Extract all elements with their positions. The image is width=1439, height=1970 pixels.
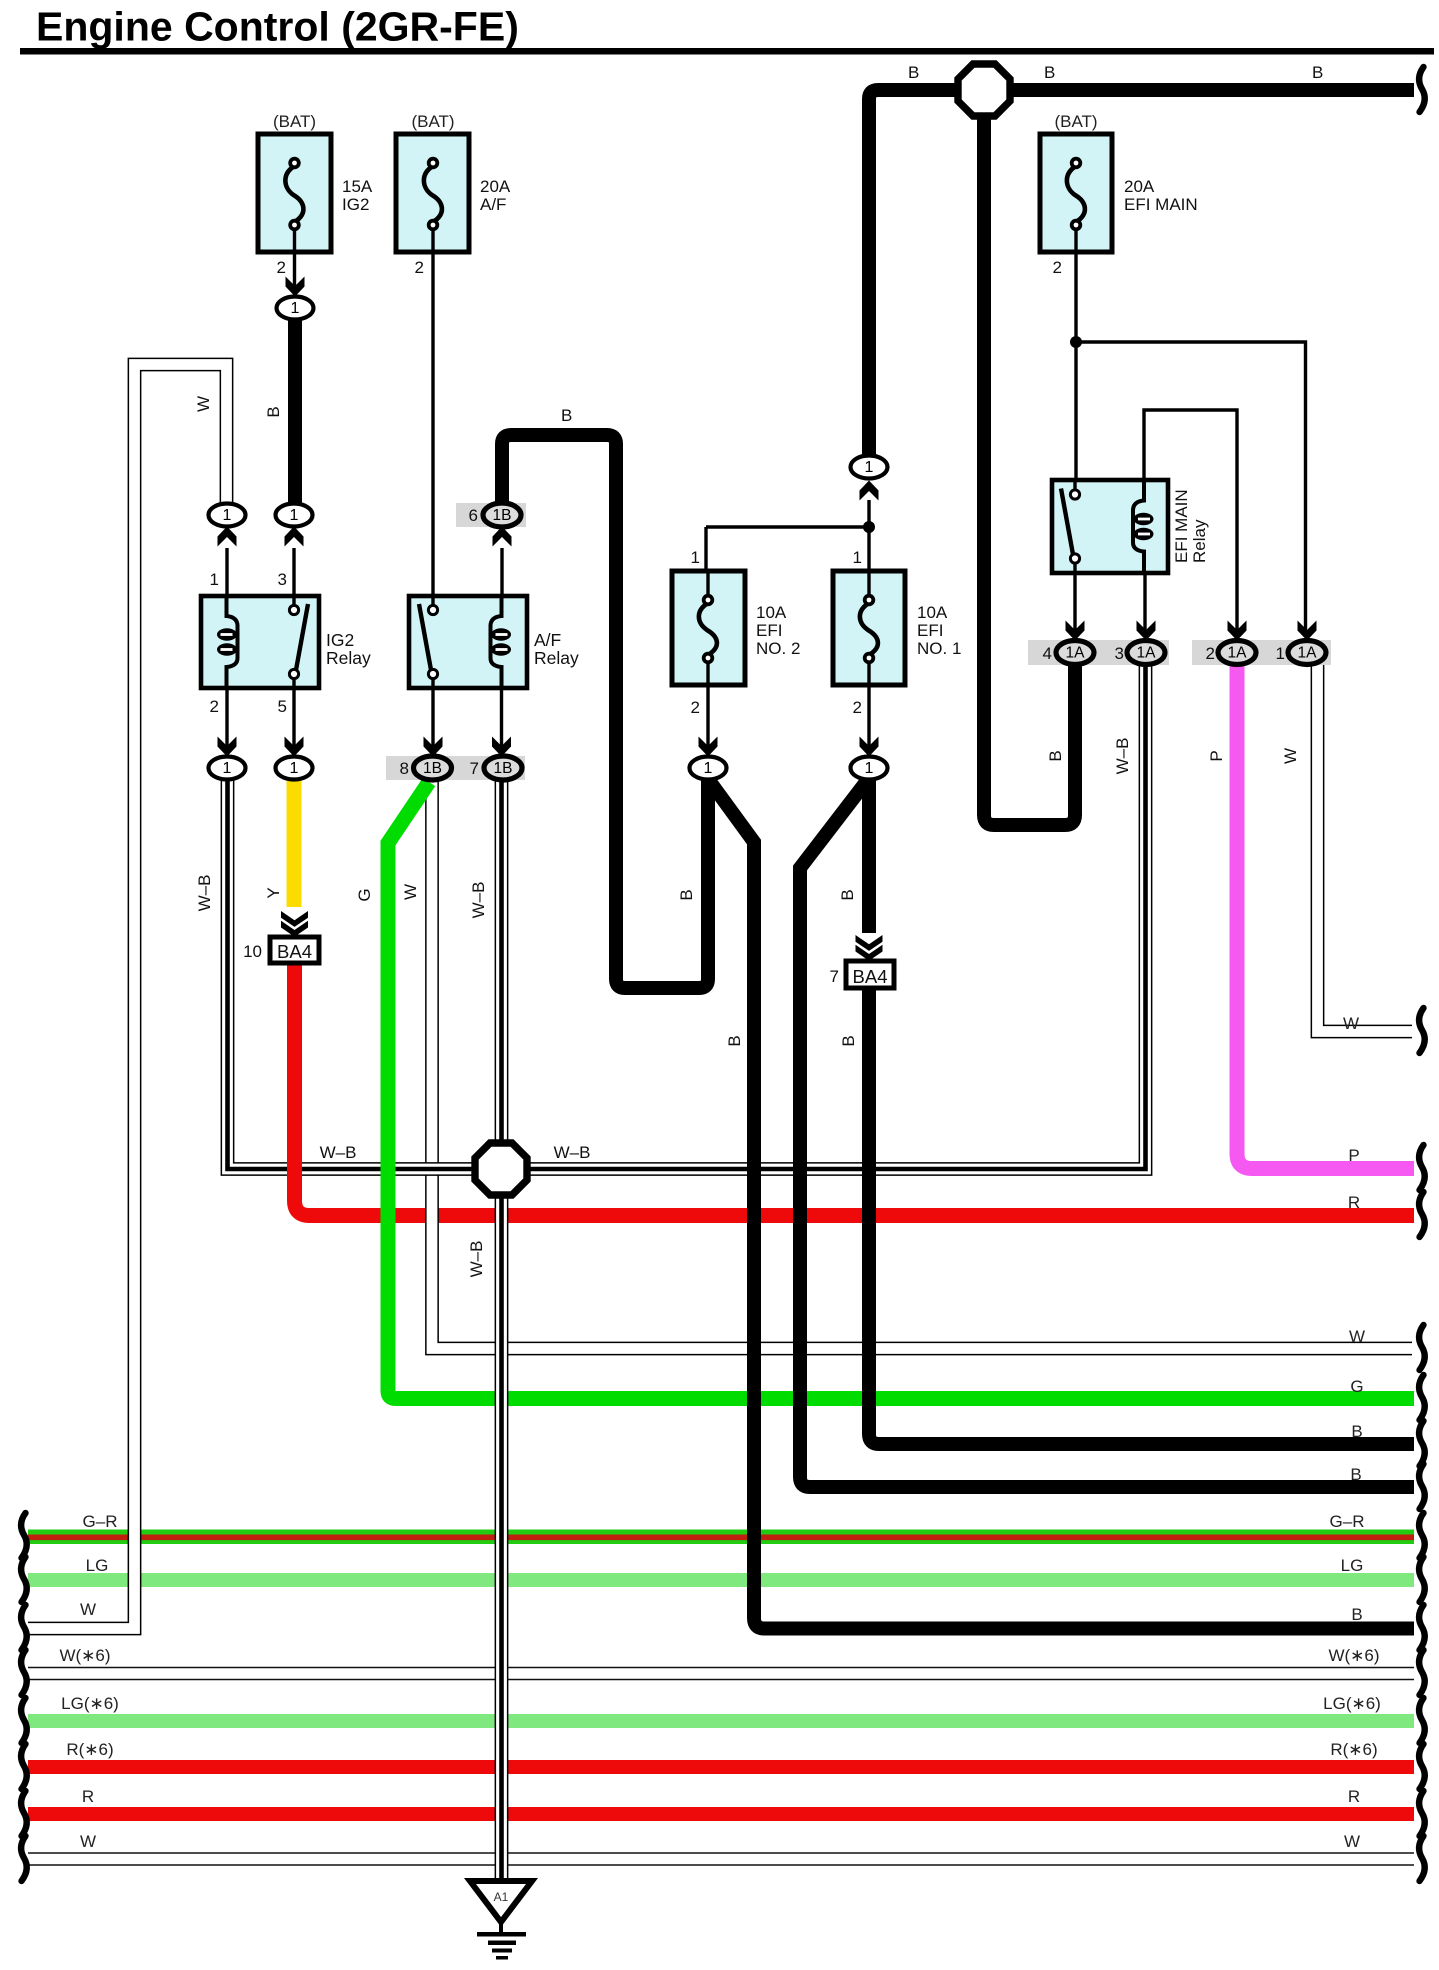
connector 3(1A) xyxy=(1127,641,1165,665)
svg-text:W: W xyxy=(1343,1014,1359,1033)
relay EFI MAIN switch xyxy=(1061,481,1080,573)
svg-text:W: W xyxy=(401,884,420,900)
arrow into connector 1 below IG2 relay pin2 xyxy=(218,737,237,757)
svg-text:10A: 10A xyxy=(756,603,787,622)
svg-text:R(∗6): R(∗6) xyxy=(1330,1740,1377,1759)
svg-text:B: B xyxy=(725,1035,744,1046)
svg-text:IG2: IG2 xyxy=(326,630,354,650)
svg-text:B: B xyxy=(908,63,919,82)
wire LG(*6) bus xyxy=(28,1714,1414,1728)
connector 1 above IG2 relay pin1 xyxy=(209,504,246,527)
wire B vertical to top bus and bus to right edge xyxy=(869,90,1414,458)
node octagon junction on top B bus xyxy=(958,64,1010,116)
arrow up into connector 6(1B) xyxy=(493,527,512,547)
wire node down to fuse EFI NO.1 pin1 xyxy=(867,527,870,602)
svg-text:1: 1 xyxy=(1276,644,1285,663)
wire connector 1 to node xyxy=(867,500,870,527)
svg-text:B: B xyxy=(1350,1465,1361,1484)
wire EFI MAIN relay coil to 3(1A) xyxy=(1143,573,1146,630)
wire B from 15A IG2 fuse to connector 1 xyxy=(288,318,302,507)
title underline xyxy=(20,48,1434,55)
svg-text:LG(∗6): LG(∗6) xyxy=(61,1694,119,1713)
svg-text:R: R xyxy=(1348,1787,1360,1806)
svg-text:G: G xyxy=(355,888,374,901)
relay IG2 coil xyxy=(217,596,238,688)
svg-text:(BAT): (BAT) xyxy=(411,112,454,131)
connector 1(1A) xyxy=(1288,641,1326,665)
svg-text:W–B: W–B xyxy=(195,875,214,912)
wire fuse A/F pin2 down to A/F relay switch xyxy=(431,252,434,606)
connector band 6(1B) xyxy=(456,503,526,527)
wire break right end of W(*6) xyxy=(1419,1650,1425,1695)
svg-text:20A: 20A xyxy=(480,177,511,196)
wire break left end of R(*6) xyxy=(21,1744,27,1789)
svg-text:NO. 2: NO. 2 xyxy=(756,639,800,658)
svg-text:W(∗6): W(∗6) xyxy=(1328,1646,1379,1665)
wire break left end of W left xyxy=(21,1605,27,1650)
arrow into connector 3(1A) xyxy=(1137,621,1156,641)
svg-text:B: B xyxy=(1351,1605,1362,1624)
wire B from BA4 no.7 down then right to edge xyxy=(869,986,1414,1444)
wire connector 1 to IG2 relay switch pin3 xyxy=(292,548,295,606)
svg-text:Relay: Relay xyxy=(326,648,371,668)
svg-text:B: B xyxy=(1044,63,1055,82)
wire node to 1(1A) xyxy=(1076,342,1306,630)
wire break left end of R bottom xyxy=(21,1791,27,1836)
svg-text:A/F: A/F xyxy=(534,630,561,650)
connector 1 below IG2 relay pin2 xyxy=(209,757,246,780)
wire break right end of LG xyxy=(1419,1557,1425,1602)
wire W-B ground drop to A1 xyxy=(495,779,509,1878)
connector 1 above IG2 relay pin3 xyxy=(276,504,313,527)
fuse 10A EFI NO.2 xyxy=(672,571,745,685)
wire IG2 relay pin2 to arrow xyxy=(225,688,228,746)
svg-text:B: B xyxy=(561,406,572,425)
wire B from EFI NO.2 connector diagonal down then right to edge xyxy=(708,779,1414,1629)
svg-text:Relay: Relay xyxy=(1190,519,1209,563)
svg-text:2: 2 xyxy=(1206,644,1215,663)
svg-text:B: B xyxy=(1046,750,1065,761)
wire break right end of B lower xyxy=(1419,1605,1425,1650)
svg-text:R: R xyxy=(1348,1193,1360,1212)
wire G from 8(1B) down then right to edge xyxy=(388,782,1414,1399)
wire G-R bus (green base) left-right xyxy=(28,1530,1414,1545)
svg-text:1: 1 xyxy=(223,507,232,524)
title: Engine Control (2GR-FE) xyxy=(36,4,519,50)
svg-text:B: B xyxy=(839,1035,858,1046)
svg-text:NO. 1: NO. 1 xyxy=(917,639,961,658)
arrow up into connector 1 above EFI fuses xyxy=(860,481,879,501)
arrow into connector 8(1B) xyxy=(424,737,443,757)
svg-text:3: 3 xyxy=(278,570,287,589)
svg-text:LG: LG xyxy=(86,1556,109,1575)
fuse 20A A/F xyxy=(396,134,469,252)
wire R from BA4 down then right xyxy=(295,960,353,1216)
wire R horizontal from BA4 (right segment) xyxy=(350,1208,1414,1223)
svg-text:4: 4 xyxy=(1043,644,1052,663)
svg-text:W: W xyxy=(194,396,213,412)
relay IG2 Relay box xyxy=(201,596,319,688)
svg-text:G–R: G–R xyxy=(83,1512,118,1531)
wire break right end of W from 1(1A) xyxy=(1419,1008,1425,1053)
arrow into connector 2(1A) xyxy=(1228,621,1247,641)
svg-text:7: 7 xyxy=(830,967,839,986)
connector 1 below fuse EFI NO.1 xyxy=(851,757,888,780)
svg-text:1B: 1B xyxy=(493,507,512,524)
svg-text:W–B: W–B xyxy=(467,1241,486,1278)
splice BA4 no.7 xyxy=(846,961,894,988)
svg-text:1A: 1A xyxy=(1137,645,1157,662)
svg-text:3: 3 xyxy=(1115,644,1124,663)
wire fuse EFI NO.1 pin2 to arrow xyxy=(867,685,870,746)
relay A/F switch xyxy=(419,596,438,688)
svg-text:EFI: EFI xyxy=(917,621,943,640)
wire B elbow 6(1B) to EFI NO.2 connector xyxy=(502,435,708,988)
svg-text:R(∗6): R(∗6) xyxy=(66,1740,113,1759)
svg-text:7: 7 xyxy=(470,759,479,778)
wire break right end of G-R xyxy=(1419,1513,1425,1558)
svg-text:W: W xyxy=(1344,1832,1360,1851)
wire break right end of W bottom xyxy=(1419,1836,1425,1881)
svg-text:W–B: W–B xyxy=(1113,738,1132,775)
svg-text:IG2: IG2 xyxy=(342,195,369,214)
connector 1 below fuse IG2 xyxy=(277,297,314,320)
wire W from 8(1B) down then right xyxy=(432,779,1412,1349)
svg-text:1A: 1A xyxy=(1298,645,1318,662)
svg-text:BA4: BA4 xyxy=(853,966,888,987)
svg-text:B: B xyxy=(264,406,283,417)
svg-text:2: 2 xyxy=(277,258,286,277)
wire node horizontal to EFI NO.2 xyxy=(706,525,869,528)
ground A1 xyxy=(470,1881,532,1960)
wire W(*6) bus xyxy=(28,1667,1414,1680)
svg-text:(BAT): (BAT) xyxy=(273,112,316,131)
svg-text:P: P xyxy=(1207,750,1226,761)
svg-text:1: 1 xyxy=(853,548,862,567)
wire B from EFI NO.1 connector diagonal down then right to edge xyxy=(800,782,1414,1487)
svg-text:2: 2 xyxy=(691,698,700,717)
svg-text:EFI MAIN: EFI MAIN xyxy=(1172,489,1191,563)
wire break right end of G xyxy=(1419,1375,1425,1420)
svg-text:2: 2 xyxy=(853,698,862,717)
relay A/F Relay box xyxy=(409,596,527,688)
wire break right end of R(*6) xyxy=(1419,1744,1425,1789)
svg-text:W: W xyxy=(80,1832,96,1851)
svg-text:P: P xyxy=(1348,1146,1359,1165)
svg-text:1: 1 xyxy=(291,300,300,317)
svg-text:1: 1 xyxy=(223,760,232,777)
svg-text:EFI: EFI xyxy=(756,621,782,640)
wire break left end of W(*6) xyxy=(21,1650,27,1695)
wire P from 2(1A) down then right xyxy=(1237,663,1414,1169)
splice BA4 no.10 xyxy=(270,937,319,963)
arrow into connector 1 below fuse EFI NO.1 xyxy=(860,737,879,757)
svg-text:B: B xyxy=(677,889,696,900)
wire fuse IG2 pin2 to arrow xyxy=(293,252,296,288)
svg-text:1: 1 xyxy=(865,459,874,476)
connector band 8/7(1B) xyxy=(386,756,525,780)
svg-text:G–R: G–R xyxy=(1330,1512,1365,1531)
wire break right end of LG(*6) xyxy=(1419,1698,1425,1743)
connector 4(1A) xyxy=(1056,641,1094,665)
svg-text:W(∗6): W(∗6) xyxy=(59,1646,110,1665)
wire break left end of W bottom xyxy=(21,1836,27,1881)
wire LG bus xyxy=(28,1573,1414,1587)
svg-text:1: 1 xyxy=(865,760,874,777)
svg-text:W–B: W–B xyxy=(554,1143,591,1162)
arrow up into connector 1 above IG2 relay pin3 xyxy=(285,527,304,547)
wire B from top octagon down, right, up to 4(1A) xyxy=(984,112,1075,825)
svg-text:1: 1 xyxy=(691,548,700,567)
wire break right end of R mid xyxy=(1419,1192,1425,1237)
wire 6(1B) to A/F relay coil xyxy=(500,548,503,600)
svg-text:1: 1 xyxy=(704,760,713,777)
arrow double chevron lower to BA4 no.10 xyxy=(281,921,308,937)
wire G-R bus red stripe xyxy=(28,1535,1414,1541)
node junction dot below EFI MAIN fuse xyxy=(1070,336,1082,348)
wire EFI MAIN relay switch to 4(1A) xyxy=(1073,562,1076,630)
arrow into connector 4(1A) xyxy=(1066,621,1085,641)
svg-text:1: 1 xyxy=(290,507,299,524)
wire W bottom bus xyxy=(28,1852,1414,1865)
svg-text:Engine Control (2GR-FE): Engine Control (2GR-FE) xyxy=(36,4,519,50)
svg-text:Y: Y xyxy=(264,887,283,898)
svg-text:2: 2 xyxy=(210,697,219,716)
svg-text:1: 1 xyxy=(290,760,299,777)
svg-text:5: 5 xyxy=(278,697,287,716)
svg-text:2: 2 xyxy=(1053,258,1062,277)
wire fuse EFI NO.2 pin2 to arrow xyxy=(706,685,709,746)
svg-text:BA4: BA4 xyxy=(277,941,312,962)
connector 1 below fuse EFI NO.2 xyxy=(690,757,727,780)
wire break right end of B middle xyxy=(1419,1464,1425,1509)
arrow into connector 1 below IG2 relay pin5 xyxy=(285,737,304,757)
wire fuse EFI MAIN pin2 down to EFI MAIN relay switch xyxy=(1074,252,1077,490)
svg-text:LG(∗6): LG(∗6) xyxy=(1323,1694,1381,1713)
svg-text:Relay: Relay xyxy=(534,648,579,668)
svg-text:8: 8 xyxy=(400,759,409,778)
relay IG2 switch xyxy=(289,596,308,688)
arrow into connector 1(1A) xyxy=(1298,621,1317,641)
relay EFI MAIN coil xyxy=(1133,481,1154,573)
connector band 4/3(1A) xyxy=(1028,640,1169,665)
svg-text:1B: 1B xyxy=(494,760,513,777)
wire W from 1(1A) down then right xyxy=(1318,663,1413,1032)
svg-text:W: W xyxy=(1349,1327,1365,1346)
svg-text:20A: 20A xyxy=(1124,177,1155,196)
arrow into connector 1 below fuse EFI NO.2 xyxy=(699,737,718,757)
connector 8(1B) xyxy=(414,756,452,780)
svg-text:2: 2 xyxy=(415,258,424,277)
fuse 10A EFI NO.1 xyxy=(833,571,905,685)
connector band 2/1(1A) xyxy=(1192,640,1331,665)
relay A/F coil xyxy=(491,596,512,688)
svg-text:B: B xyxy=(1312,63,1323,82)
wire break left end of LG(*6) xyxy=(21,1698,27,1743)
svg-text:A/F: A/F xyxy=(480,195,506,214)
wire W-B from IG2 relay to EFI MAIN relay via ground junction xyxy=(228,663,1146,1169)
svg-text:15A: 15A xyxy=(342,177,373,196)
wire break right end of W from 8(1B) xyxy=(1419,1325,1425,1370)
wire break left end of LG xyxy=(21,1557,27,1602)
wire node down to fuse EFI NO.2 pin1 xyxy=(704,527,707,602)
svg-text:B: B xyxy=(1351,1422,1362,1441)
connector 2(1A) xyxy=(1218,641,1256,665)
svg-text:W: W xyxy=(80,1600,96,1619)
svg-text:EFI MAIN: EFI MAIN xyxy=(1124,195,1198,214)
node junction dot below connector 1 xyxy=(863,521,875,533)
wire EFI MAIN relay coil loop to 2(1A) xyxy=(1144,410,1237,630)
connector 6(1B) xyxy=(483,503,521,527)
fuse 15A IG2 xyxy=(258,134,331,252)
svg-text:1A: 1A xyxy=(1066,645,1086,662)
wire break right end of R bottom xyxy=(1419,1791,1425,1836)
wire break right end of P xyxy=(1419,1145,1425,1190)
arrow double chevron lower to BA4 no.7 xyxy=(856,945,883,961)
svg-text:G: G xyxy=(1350,1377,1363,1396)
wire B from EFI NO.1 connector to BA4 xyxy=(862,779,876,933)
svg-text:W: W xyxy=(1281,748,1300,764)
arrow into connector 7(1B) xyxy=(492,737,511,757)
arrow into connector 1 below fuse IG2 xyxy=(286,277,305,297)
svg-text:6: 6 xyxy=(469,506,478,525)
svg-text:A1: A1 xyxy=(494,1890,509,1904)
svg-text:1B: 1B xyxy=(423,760,442,777)
arrow double chevron upper to BA4 no.10 xyxy=(281,911,308,927)
wire break right end of B top bus xyxy=(1419,67,1425,112)
wire break right end of B upper xyxy=(1419,1421,1425,1466)
wire connector 1 to IG2 relay coil pin1 xyxy=(225,548,228,608)
arrow double chevron upper to BA4 no.7 xyxy=(856,935,883,951)
svg-text:W–B: W–B xyxy=(469,882,488,919)
relay EFI MAIN Relay box xyxy=(1052,480,1168,573)
svg-text:R: R xyxy=(82,1787,94,1806)
wire A/F relay coil to arrow 7(1B) xyxy=(500,688,503,746)
wire Y from IG2 relay pin5 connector to BA4 xyxy=(287,779,302,907)
svg-text:10A: 10A xyxy=(917,603,948,622)
wire R(*6) bus xyxy=(28,1760,1414,1774)
svg-text:B: B xyxy=(838,889,857,900)
wire break left end of G-R xyxy=(21,1513,27,1558)
wire R bus xyxy=(28,1807,1414,1821)
svg-text:LG: LG xyxy=(1341,1556,1364,1575)
svg-text:(BAT): (BAT) xyxy=(1054,112,1097,131)
svg-text:W–B: W–B xyxy=(320,1143,357,1162)
svg-text:1: 1 xyxy=(210,570,219,589)
connector 7(1B) xyxy=(484,756,522,780)
wire IG2 relay pin5 to arrow xyxy=(292,688,295,746)
arrow up into connector 1 above IG2 relay pin1 xyxy=(218,527,237,547)
wire A/F relay switch to arrow 8(1B) xyxy=(431,678,434,746)
svg-text:1A: 1A xyxy=(1228,645,1248,662)
fuse 20A EFI MAIN xyxy=(1040,134,1112,252)
connector 1 below IG2 relay pin5 xyxy=(276,757,313,780)
node octagon junction W-B ground xyxy=(475,1143,527,1195)
wire W left tall loop xyxy=(28,365,227,1629)
svg-text:10: 10 xyxy=(243,942,262,961)
connector 1 on B feed above EFI fuses xyxy=(851,456,888,479)
